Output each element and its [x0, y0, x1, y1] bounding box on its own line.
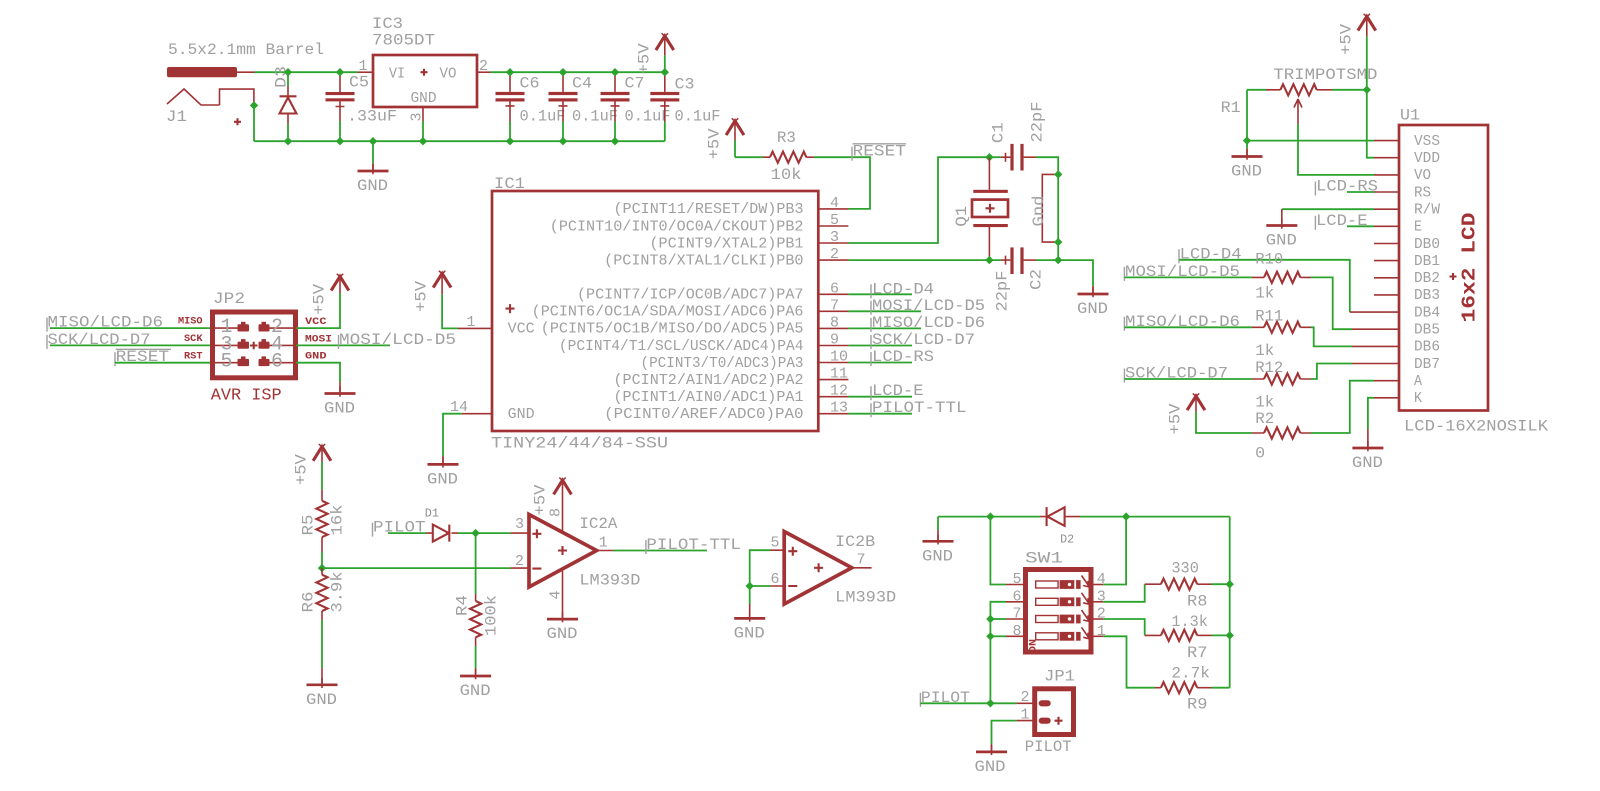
svg-text:3: 3 [515, 516, 524, 533]
svg-text:5: 5 [771, 535, 780, 552]
svg-text:3: 3 [830, 229, 839, 246]
node C6 top [506, 68, 514, 76]
svg-text:0.1uF: 0.1uF [572, 108, 618, 126]
svg-text:DB2: DB2 [1414, 270, 1440, 287]
svg-text:GND: GND [324, 400, 355, 418]
svg-text:1: 1 [359, 58, 368, 75]
svg-text:GND: GND [306, 691, 337, 709]
wire LCD-E from pin12 [848, 396, 912, 398]
supply +5V at R3 [726, 118, 744, 135]
svg-text:JP2: JP2 [213, 290, 245, 308]
svg-text:1: 1 [1097, 623, 1106, 640]
svg-text:0.1uF: 0.1uF [625, 108, 671, 126]
wire JP2 VCC to +5V [296, 293, 340, 328]
svg-text:+5V: +5V [532, 484, 550, 515]
trimpot R1 [1247, 84, 1367, 124]
capacitor C1 [989, 144, 1058, 260]
svg-text:+5V: +5V [311, 283, 329, 314]
wire JP2 GND [296, 363, 340, 382]
svg-text:5.5x2.1mm Barrel: 5.5x2.1mm Barrel [168, 41, 324, 59]
op-amp IC2B [784, 532, 852, 605]
wire PB1 to crystal [848, 157, 989, 243]
wire PILOT-TTL from pin13 [848, 413, 912, 415]
node R1 left bottom [1243, 136, 1251, 144]
ground GND at IC2A [547, 612, 578, 622]
svg-text:TINY24/44/84-SSU: TINY24/44/84-SSU [491, 435, 668, 453]
svg-text:(PCINT5/OC1B/MISO/DO/ADC5)PA5: (PCINT5/OC1B/MISO/DO/ADC5)PA5 [541, 321, 804, 338]
svg-text:R4: R4 [454, 595, 472, 616]
supply +5V above C3 [656, 33, 674, 50]
svg-text:0.1uF: 0.1uF [675, 108, 721, 126]
capacitor C7 [601, 72, 630, 141]
SW1 pin 8 wire [1006, 635, 1026, 637]
wire VDD from +5V [1367, 90, 1374, 158]
resistor R9 [1161, 682, 1197, 693]
svg-text:GND: GND [1352, 454, 1383, 472]
diode D2 [1040, 507, 1080, 526]
node IC3 pin3 bottom [419, 137, 427, 145]
JP1 plus mark [1055, 717, 1063, 725]
wire R4 to gnd [475, 646, 477, 668]
svg-text:9: 9 [830, 332, 839, 349]
wire IC2B inputs tied [771, 550, 785, 586]
wire VSS row [1247, 140, 1374, 142]
svg-text:DB7: DB7 [1414, 356, 1440, 373]
net label LCD-D4 (pin6) [870, 284, 872, 298]
wire R6 to gnd [321, 620, 323, 668]
wire PILOT to D1 [388, 532, 426, 534]
svg-text:RS: RS [1414, 184, 1431, 201]
node gnd loop bottom [1054, 238, 1062, 246]
svg-text:A: A [1414, 373, 1422, 390]
svg-text:K: K [1414, 390, 1422, 407]
svg-text:PILOT-TTL: PILOT-TTL [646, 536, 741, 554]
svg-text:GND: GND [922, 547, 953, 565]
wire D1 to IC2A pin3 [458, 532, 511, 534]
node R8 right [1226, 580, 1234, 588]
node J1 sleeve junction [250, 101, 258, 109]
svg-text:3: 3 [409, 112, 426, 121]
wire RESET to JP2 pin5 [115, 362, 211, 364]
svg-text:14: 14 [450, 399, 468, 416]
net label PILOT (JP1) [919, 693, 921, 707]
node R1 right [1363, 86, 1371, 94]
ground GND at R6 [307, 678, 338, 688]
svg-text:R10: R10 [1255, 251, 1283, 269]
svg-text:C7: C7 [625, 75, 645, 93]
connector JP1 box [1035, 689, 1074, 735]
IC3 pin 1 stub [358, 71, 374, 73]
wire MISO/LCD-D6 from pin8 [848, 327, 921, 329]
node pin7 tie [986, 615, 994, 623]
supply +5V at JP2 [331, 274, 349, 291]
svg-text:GND: GND [427, 470, 458, 488]
node XTAL2 junction [985, 153, 993, 161]
net label MISO/LCD-D6 (pin8) [870, 318, 872, 332]
ground GND at IC1 pin14 [428, 457, 459, 467]
svg-text:16x2 LCD: 16x2 LCD [1459, 213, 1481, 323]
ground GND at R1 [1246, 141, 1248, 149]
svg-text:GND: GND [508, 406, 535, 423]
net label LCD-E (pin12) [870, 386, 872, 400]
node C7 bottom [611, 137, 619, 145]
svg-text:LM393D: LM393D [579, 572, 640, 590]
ground GND at JP2 [325, 387, 356, 397]
svg-text:(PCINT6/OC1A/SDA/MOSI/ADC6)PA6: (PCINT6/OC1A/SDA/MOSI/ADC6)PA6 [532, 304, 804, 321]
svg-text:MOSI/LCD-D5: MOSI/LCD-D5 [339, 331, 456, 349]
ground GND at D2 rail [923, 534, 954, 544]
net label MOSI/LCD-D5 (R10) [1123, 267, 1125, 281]
svg-text:16k: 16k [329, 505, 347, 536]
svg-text:MOSI: MOSI [305, 335, 332, 346]
wire R10 to DB5 [1311, 277, 1352, 329]
ground GND under rail [358, 164, 389, 174]
svg-text:+5V: +5V [293, 454, 311, 485]
svg-text:PILOT-TTL: PILOT-TTL [872, 399, 967, 417]
svg-text:+5V: +5V [706, 128, 724, 159]
node IC2B inputs [746, 582, 754, 590]
svg-text:(PCINT10/INT0/OC0A/CKOUT)PB2: (PCINT10/INT0/OC0A/CKOUT)PB2 [550, 218, 804, 235]
net label SCK/LCD-D7 (R12) [1123, 369, 1125, 383]
net label PILOT (D1) [372, 523, 374, 537]
svg-text:C4: C4 [572, 75, 592, 93]
svg-text:3.9k: 3.9k [329, 572, 347, 613]
svg-text:MISO/LCD-D6: MISO/LCD-D6 [872, 314, 985, 332]
svg-text:1: 1 [599, 535, 608, 552]
wire K to gnd [1374, 397, 1399, 399]
U1 unconnected stubs DB0-DB3 [1374, 244, 1399, 295]
ground GND crystal [1078, 287, 1109, 297]
svg-text:LCD-D4: LCD-D4 [872, 280, 934, 298]
svg-text:1.3k: 1.3k [1171, 613, 1208, 631]
svg-text:VCC: VCC [305, 317, 327, 328]
net label LCD-RS [1314, 182, 1316, 196]
svg-text:+5V: +5V [635, 43, 653, 74]
resistor R12 [1124, 373, 1311, 384]
svg-text:R3: R3 [777, 129, 796, 147]
svg-text:C5: C5 [349, 74, 369, 92]
capacitor C4 [549, 72, 578, 141]
svg-text:PILOT: PILOT [1025, 738, 1072, 756]
node C6 bottom [506, 137, 514, 145]
net label SCK/LCD-D7 (left) [46, 335, 48, 349]
SW1 pin numbers [1013, 571, 1106, 640]
svg-text:10: 10 [830, 349, 848, 366]
svg-text:R/W: R/W [1414, 202, 1440, 219]
svg-text:10k: 10k [771, 166, 802, 184]
wire top rail left [255, 71, 358, 73]
svg-text:1k: 1k [1255, 285, 1274, 303]
svg-text:C2: C2 [1028, 269, 1046, 290]
supply +5V at IC2A pin8 [554, 478, 572, 495]
svg-text:6: 6 [1013, 588, 1022, 605]
svg-text:VO: VO [1414, 167, 1431, 184]
wire MISO to JP2 pin1 [50, 327, 211, 329]
wire down to R4 [475, 533, 477, 594]
net label MOSI/LCD-D5 (pin7) [870, 301, 872, 315]
wire Gnd loop of crystal [1042, 174, 1058, 242]
svg-text:IC1: IC1 [494, 175, 525, 193]
svg-text:(PCINT2/AIN1/ADC2)PA2: (PCINT2/AIN1/ADC2)PA2 [614, 372, 804, 389]
svg-text:2: 2 [1097, 606, 1106, 623]
op IC1 box [492, 191, 818, 431]
IC2A pin4 to gnd [562, 571, 564, 618]
net label LCD-E [1314, 216, 1316, 230]
resistor R5 [316, 490, 327, 552]
svg-text:GND: GND [460, 682, 491, 700]
svg-text:IC2A: IC2A [579, 515, 617, 533]
wire top rail right [491, 71, 665, 73]
ground GND at R/W [1266, 219, 1297, 229]
svg-text:R8: R8 [1187, 593, 1208, 611]
resistor R11 [1124, 322, 1311, 333]
svg-text:2: 2 [479, 58, 488, 75]
svg-text:E: E [1414, 219, 1422, 236]
svg-text:GND: GND [305, 352, 327, 363]
svg-text:1k: 1k [1255, 342, 1274, 360]
svg-text:4: 4 [1097, 571, 1106, 588]
svg-text:R1: R1 [1221, 99, 1241, 117]
svg-text:22pF: 22pF [1029, 102, 1047, 143]
svg-text:JP1: JP1 [1044, 668, 1075, 686]
net label RESET (left) [114, 352, 116, 366]
svg-text:VO: VO [440, 66, 457, 83]
svg-text:DB5: DB5 [1414, 322, 1440, 339]
capacitor C6 [496, 72, 525, 141]
wire J1 pin stub [237, 71, 255, 73]
wire LCD-D4 to DB4 [1179, 260, 1350, 312]
svg-text:12: 12 [830, 383, 848, 400]
svg-text:Gnd: Gnd [1030, 196, 1048, 227]
svg-text:7: 7 [830, 297, 839, 314]
IC1 pin1 VCC left [458, 327, 492, 329]
svg-text:(PCINT9/XTAL2)PB1: (PCINT9/XTAL2)PB1 [650, 235, 804, 252]
svg-text:(PCINT4/T1/SCL/USCK/ADC4)PA4: (PCINT4/T1/SCL/USCK/ADC4)PA4 [559, 338, 804, 355]
JP2 pads and pin lines [215, 322, 293, 366]
svg-text:GND: GND [975, 758, 1006, 776]
SW1 pin 5 wire [1006, 584, 1026, 586]
node D3 top [284, 68, 292, 76]
node C3 top [661, 68, 669, 76]
IC1 plus mark [506, 304, 515, 313]
net label MISO/LCD-D6 (R11) [1123, 317, 1125, 331]
switch SW1 box [1026, 570, 1092, 653]
svg-text:R7: R7 [1187, 644, 1208, 662]
diode D3 [280, 72, 297, 141]
svg-text:(PCINT8/XTAL1/CLKI)PB0: (PCINT8/XTAL1/CLKI)PB0 [604, 252, 803, 269]
connector JP2 box [213, 312, 296, 378]
node C7 top [611, 68, 619, 76]
svg-text:GND: GND [547, 625, 578, 643]
svg-text:D2: D2 [1060, 533, 1074, 547]
svg-text:R2: R2 [1255, 410, 1274, 428]
wire PILOT to JP1 pin2 [920, 702, 1016, 704]
svg-text:R12: R12 [1255, 359, 1283, 377]
U1 plus mark [1450, 273, 1457, 280]
svg-text:DB1: DB1 [1414, 253, 1440, 270]
resistor R3 [763, 152, 814, 163]
svg-text:(PCINT7/ICP/OC0B/ADC7)PA7: (PCINT7/ICP/OC0B/ADC7)PA7 [577, 287, 804, 304]
resistor R6 [316, 568, 327, 620]
svg-text:1k: 1k [1255, 393, 1274, 411]
svg-text:GND: GND [411, 90, 437, 107]
capacitor C2 [1001, 247, 1093, 296]
resistor R7 [1161, 630, 1197, 641]
svg-text:+5V: +5V [1337, 23, 1355, 54]
IC2B pin7 stub [852, 567, 872, 569]
wire LCD-RS from pin10 [848, 362, 912, 364]
svg-text:7: 7 [1013, 606, 1022, 623]
svg-text:RESET: RESET [853, 143, 907, 161]
svg-text:ON: ON [1029, 639, 1040, 653]
svg-text:GND: GND [1077, 300, 1108, 318]
wire R2 to A [1311, 381, 1374, 433]
svg-text:2: 2 [830, 246, 839, 263]
wire R1 left down [1246, 90, 1248, 141]
wire E [1347, 225, 1374, 227]
resistor R10 [1124, 272, 1311, 283]
svg-text:8: 8 [1013, 623, 1022, 640]
svg-text:AVR ISP: AVR ISP [211, 387, 282, 406]
svg-text:2: 2 [1021, 689, 1030, 706]
SW1 pin 4 wire [1091, 584, 1103, 586]
IC1 right pin stubs [818, 209, 848, 414]
svg-text:(PCINT1/AIN0/ADC1)PA1: (PCINT1/AIN0/ADC1)PA1 [614, 389, 804, 406]
connector U1 box [1399, 125, 1488, 411]
svg-text:SCK/LCD-D7: SCK/LCD-D7 [872, 331, 975, 349]
node D1 output [471, 529, 479, 537]
resistor R4 [470, 601, 481, 646]
svg-text:100k: 100k [483, 595, 501, 636]
svg-text:GND: GND [1231, 163, 1262, 181]
svg-text:J1: J1 [166, 108, 187, 126]
ground GND at JP1 [976, 745, 1007, 755]
regulator IC3 box [373, 55, 477, 107]
svg-text:Q1: Q1 [953, 206, 971, 227]
wire right bus [1229, 517, 1231, 688]
svg-text:R5: R5 [300, 515, 318, 536]
svg-text:VI: VI [389, 66, 405, 83]
wire LCD-D4 from pin6 [848, 293, 912, 295]
svg-text:DB6: DB6 [1414, 339, 1440, 356]
SW1 element 1 [1036, 576, 1090, 589]
SW1 pin 3 wire to R8 [1091, 601, 1103, 603]
IC1 right pin numbers [830, 195, 848, 417]
net label PILOT-TTL (pin13) [870, 403, 872, 417]
node C5 top [336, 68, 344, 76]
svg-text:SW1: SW1 [1025, 550, 1063, 568]
net label LCD-D4 (R10 row) [1178, 249, 1180, 263]
node C2 right [1054, 256, 1062, 264]
capacitor C3 [650, 72, 679, 141]
node D2 left [986, 512, 994, 520]
SW1 pin 6 wire [1006, 601, 1026, 603]
svg-text:GND: GND [357, 177, 388, 195]
svg-text:7805DT: 7805DT [372, 32, 435, 50]
svg-text:8: 8 [830, 314, 839, 331]
JP2 pin numbers [221, 316, 284, 374]
svg-text:13: 13 [830, 400, 848, 417]
svg-text:DB4: DB4 [1414, 304, 1440, 321]
wire divider node [322, 552, 511, 568]
IC1 pin texts [508, 201, 804, 423]
node XTAL1 junction [985, 256, 993, 264]
svg-text:R6: R6 [300, 592, 318, 613]
wire J1 sleeve to bottom rail [253, 105, 255, 141]
svg-text:TRIMPOTSMD: TRIMPOTSMD [1273, 66, 1377, 84]
JP2 pin names red [178, 317, 332, 363]
ground GND at R4 [460, 669, 491, 679]
svg-text:DB0: DB0 [1414, 236, 1440, 253]
svg-text:C6: C6 [520, 75, 540, 93]
svg-text:11: 11 [830, 366, 848, 383]
svg-text:LCD-RS: LCD-RS [872, 348, 934, 366]
svg-text:2: 2 [515, 553, 524, 570]
resistor R2 [1252, 427, 1311, 438]
svg-text:+5V: +5V [1167, 403, 1185, 434]
node R7 right [1226, 631, 1234, 639]
svg-text:LM393D: LM393D [835, 589, 896, 607]
U1 pin names [1414, 133, 1440, 407]
capacitor C5 [326, 72, 355, 141]
node gnd loop top [1054, 170, 1062, 178]
svg-text:4: 4 [830, 195, 839, 212]
wire RS [1347, 191, 1374, 193]
svg-text:5: 5 [830, 212, 839, 229]
wire wiper to VO [1298, 124, 1374, 175]
SW1 pin 7 wire [1006, 618, 1026, 620]
op-amp IC2A [529, 515, 597, 588]
svg-text:6: 6 [830, 280, 839, 297]
node pin8 tie [986, 632, 994, 640]
wire R12 to DB7 [1311, 364, 1352, 380]
net label SCK/LCD-D7 (pin9) [870, 335, 872, 349]
svg-text:GND: GND [1266, 232, 1297, 250]
wire SCK to JP2 pin3 [50, 344, 211, 346]
wire R/W to gnd [1282, 208, 1374, 210]
SW1 element 2 [1036, 593, 1090, 606]
IC1 pin14 GND left [462, 413, 492, 415]
svg-text:2.7k: 2.7k [1171, 665, 1210, 683]
svg-text:1: 1 [467, 314, 476, 331]
svg-text:0: 0 [1255, 445, 1265, 463]
svg-text:C1: C1 [990, 122, 1008, 143]
svg-text:DB3: DB3 [1414, 287, 1440, 304]
svg-text:3: 3 [1097, 588, 1106, 605]
svg-text:GND: GND [734, 624, 765, 642]
svg-text:IC3: IC3 [372, 15, 403, 33]
svg-text:R9: R9 [1187, 696, 1208, 714]
net label LCD-RS (pin10) [870, 352, 872, 366]
node PILOT junction [986, 699, 994, 707]
svg-text:7: 7 [857, 552, 866, 569]
connector J1 barrel jack [167, 67, 254, 105]
svg-text:(PCINT3/T0/ADC3)PA3: (PCINT3/T0/ADC3)PA3 [641, 355, 804, 372]
resistor R8 [1161, 579, 1197, 590]
wire MOSI/LCD-D5 from pin7 [848, 310, 921, 312]
JP1 pads [1039, 700, 1051, 706]
node C5 bottom [336, 137, 344, 145]
svg-text:IC2B: IC2B [835, 533, 875, 551]
svg-text:MOSI/LCD-D5: MOSI/LCD-D5 [872, 297, 985, 315]
node C4 bottom [559, 137, 567, 145]
svg-text:330: 330 [1171, 560, 1199, 578]
svg-text:VSS: VSS [1414, 133, 1440, 150]
svg-text:0.1uF: 0.1uF [520, 108, 566, 126]
svg-text:5: 5 [1013, 571, 1022, 588]
wire PB0 to crystal [848, 259, 1001, 261]
wire RESET to IC1 pin4 [814, 157, 870, 209]
